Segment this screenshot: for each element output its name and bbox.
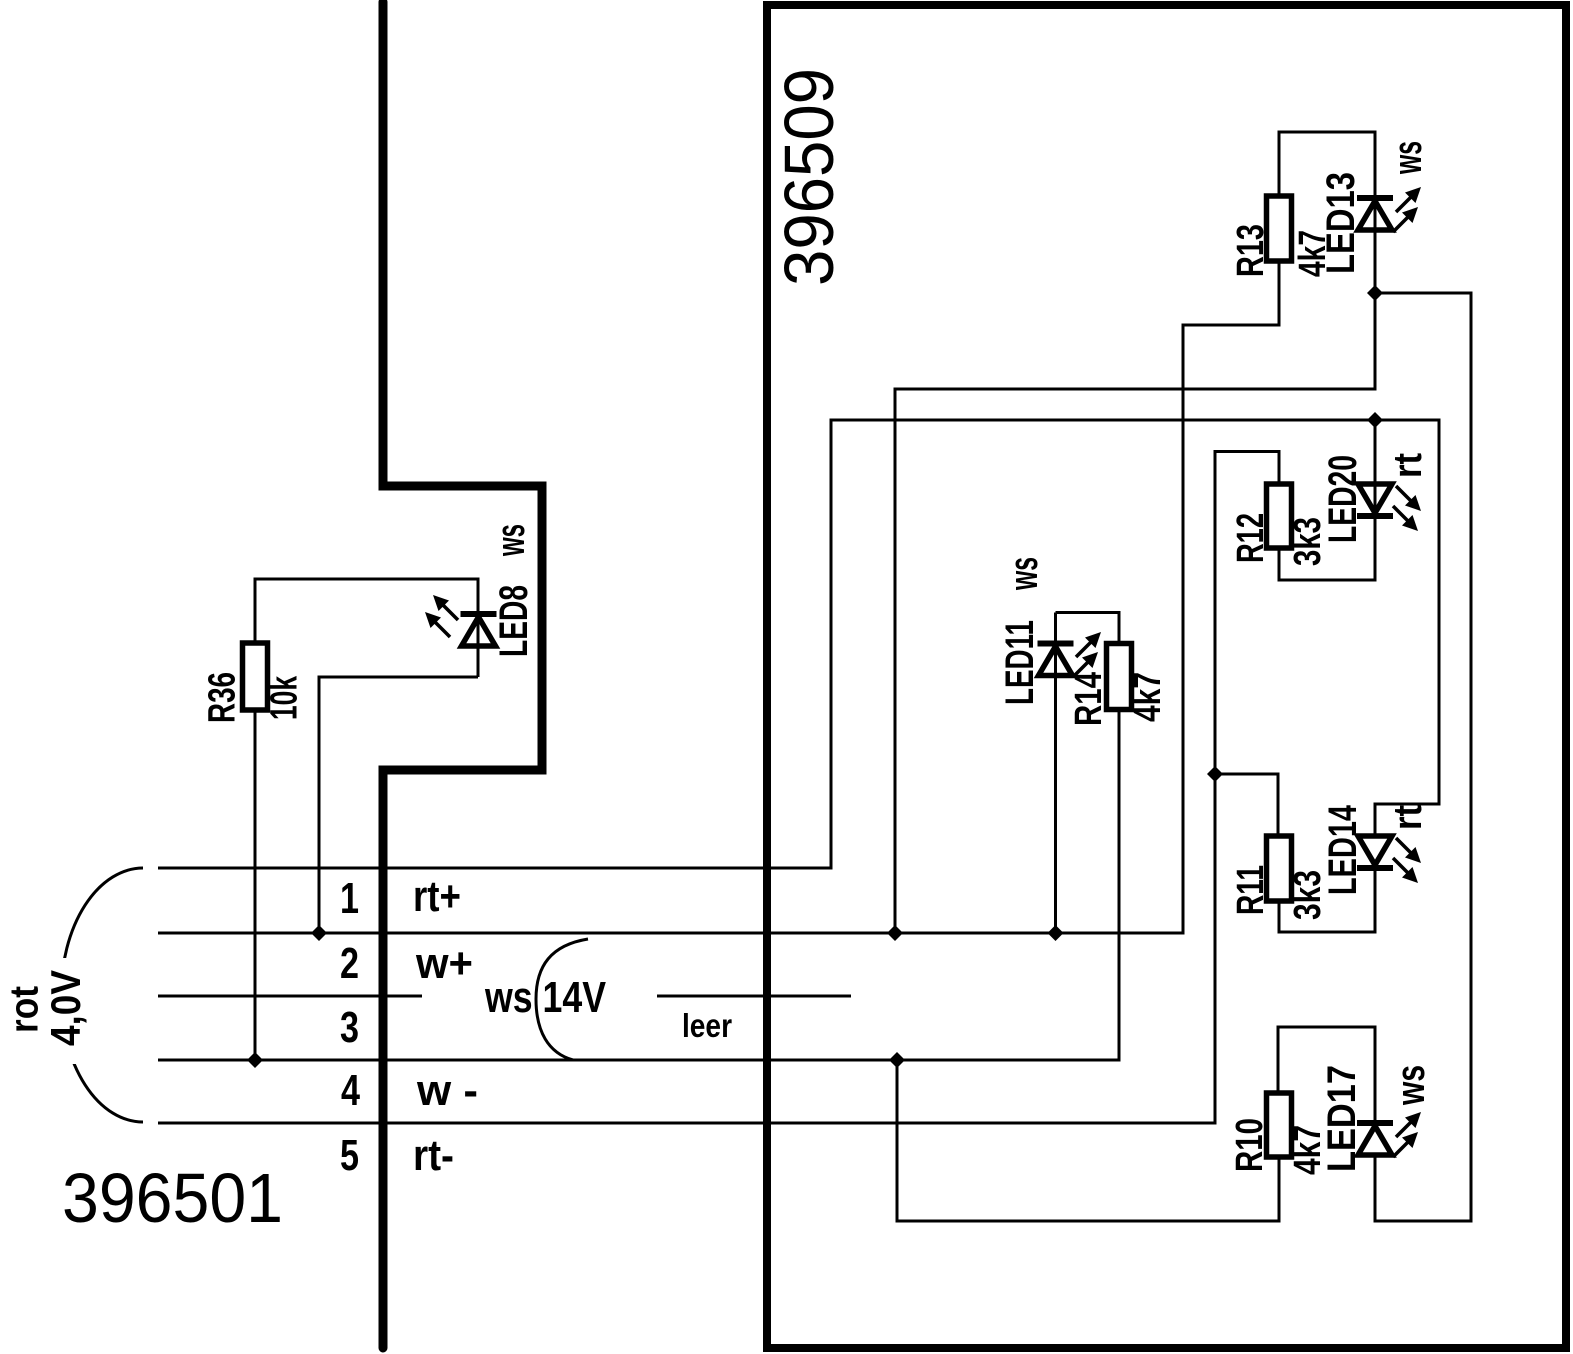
wire pin4 w- [158,710,1119,1060]
node LED13 anode [1367,285,1383,301]
node LED11 / w+ [1048,925,1064,941]
svg-text:5: 5 [340,1131,359,1180]
white mask behind rot / 4,0V labels [4,958,94,1064]
arc ws 14V bundle [536,939,588,1060]
wire LED8 bottom to pin2 [319,677,478,933]
svg-text:ws: ws [1389,1065,1433,1106]
LED17 (up, arrows up-right) [1357,1112,1421,1157]
wire R11 bottom / LED14 bottom [1279,868,1375,932]
wire R36 bottom to pin4 [254,710,257,1060]
svg-text:396501: 396501 [62,1159,283,1237]
LED13 (up, arrows up-right) [1357,187,1421,232]
wire pin3 leer segment [657,995,851,998]
svg-text:ws: ws [1002,557,1046,591]
resistor R13 [1267,196,1292,261]
svg-text:LED13: LED13 [1319,172,1363,274]
svg-text:4: 4 [341,1066,360,1115]
svg-text:10k: 10k [264,675,306,720]
arc rot 4,0V bundle [61,868,143,1122]
wire LED13 cathode down + anode node [895,196,1375,933]
node LED8 anode / w+ [311,925,327,941]
svg-text:R12: R12 [1230,513,1272,563]
svg-text:R36: R36 [202,672,244,723]
svg-text:LED14: LED14 [1321,804,1365,895]
svg-text:leer: leer [682,1007,732,1044]
svg-text:LED17: LED17 [1320,1065,1364,1172]
wire R36 top to LED8 top [255,579,478,677]
svg-text:R10: R10 [1229,1118,1271,1172]
svg-text:w+: w+ [415,939,473,988]
svg-text:rt-: rt- [413,1131,454,1180]
wire R10 bottom to w- [897,1060,1279,1221]
resistor R10 [1267,1093,1292,1157]
wire LED13 anode to LED17 anode [1375,293,1471,1221]
node x897 / w- [889,1052,905,1068]
svg-text:1: 1 [340,874,359,923]
wire LED11 vertical [1054,613,1057,934]
node pin5 riser / R11 [1207,766,1223,782]
resistor R36 [243,643,268,710]
wire pin5 rt- [158,452,1279,1124]
svg-text:rt: rt [1386,805,1430,830]
svg-text:4,0V: 4,0V [42,970,89,1046]
svg-text:2: 2 [340,939,359,988]
resistor R14 [1107,644,1132,710]
svg-text:rot: rot [2,986,46,1033]
node x895 / w+ [887,925,903,941]
svg-text:rt+: rt+ [413,872,461,921]
svg-text:R11: R11 [1230,865,1272,915]
svg-text:ws: ws [489,524,533,557]
svg-text:rt: rt [1386,453,1430,478]
svg-text:LED20: LED20 [1321,455,1365,543]
wire R12 top bracket from pin5 riser [1215,774,1278,836]
svg-text:w -: w - [416,1066,478,1115]
svg-text:R14: R14 [1068,672,1110,726]
wire R10/LED17 top bracket [1278,1027,1375,1123]
svg-text:396509: 396509 [770,68,848,286]
resistor R12 [1267,484,1292,548]
svg-text:LED8: LED8 [492,585,536,657]
resistor R11 [1267,836,1292,901]
wire LED11/R14 top bracket [1056,613,1120,644]
node rt+ / LED20 [1367,412,1383,428]
LED11 (up, arrows up-right) [1038,632,1102,677]
svg-text:4k7: 4k7 [1127,672,1169,722]
wire LED20 branch [1279,420,1375,580]
wire R13 bottom to w+ riser [1278,261,1281,325]
node R36 / w- [247,1052,263,1068]
wire pin2 w+ [158,261,1279,933]
wire pin1 rt+ [158,420,1439,868]
svg-text:ws: ws [1386,141,1430,175]
LED8 (up, arrows up-left) [425,595,497,646]
wire pin3 left segment [158,995,422,998]
LED14 (down, arrows down-right) [1357,836,1421,883]
wire R13/LED13 top bracket [1279,132,1375,196]
LED20 (down, arrows down-right) [1357,484,1421,531]
svg-text:3: 3 [340,1003,359,1052]
svg-text:R13: R13 [1230,224,1272,277]
svg-text:ws 14V: ws 14V [484,973,606,1022]
svg-text:LED11: LED11 [998,620,1042,705]
